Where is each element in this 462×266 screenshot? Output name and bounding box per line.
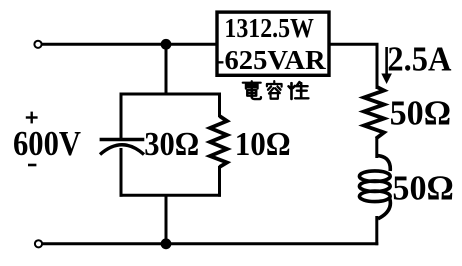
- bottom rail wire: [42, 242, 378, 245]
- svg-text:600V: 600V: [13, 124, 81, 163]
- 性: [289, 82, 309, 99]
- source polarity +: [26, 112, 38, 124]
- terminal (top-left, open circle): [34, 41, 41, 48]
- svg-text:30Ω: 30Ω: [144, 126, 199, 163]
- 電: [243, 81, 261, 99]
- svg-text:10Ω: 10Ω: [235, 126, 291, 163]
- parallel network bottom wire: [120, 194, 222, 197]
- node A (top junction dot): [161, 39, 172, 50]
- source polarity -: [28, 164, 36, 167]
- annotation box (power readings): [217, 12, 329, 75]
- svg-text:-625VAR: -625VAR: [215, 45, 326, 75]
- wire: inductor to bottom rail: [375, 216, 378, 245]
- wire: left branch above capacitor: [120, 93, 123, 139]
- wire: right branch above resistor: [218, 93, 221, 118]
- wire: annotation box to right corner, down to resistor: [329, 44, 377, 89]
- wire: top-left terminal to annotation box: [42, 43, 216, 46]
- svg-text:2.5A: 2.5A: [387, 39, 452, 78]
- wire: node A down to parallel network: [165, 44, 168, 95]
- resistor 10Ω (zigzag): [210, 116, 227, 167]
- wire: left branch below capacitor: [120, 148, 123, 197]
- svg-text:50Ω: 50Ω: [390, 94, 451, 133]
- svg-text:1312.5W: 1312.5W: [224, 13, 314, 43]
- label 電容性 (capacitive), drawn as strokes: [243, 81, 309, 99]
- inductor 50Ω (coil loops): [359, 156, 390, 219]
- current arrow (2.5A direction): [381, 47, 392, 84]
- node B (bottom junction dot): [161, 238, 172, 249]
- capacitor 30Ω (curved-plate): [100, 140, 145, 155]
- wire: resistor to inductor: [375, 137, 378, 158]
- svg-text:50Ω: 50Ω: [392, 169, 453, 208]
- resistor 50Ω (right branch, zigzag): [364, 87, 384, 139]
- terminal (bottom-left, open circle): [35, 240, 42, 247]
- wire: node B up to parallel network: [165, 194, 168, 244]
- parallel network top wire: [120, 93, 222, 96]
- wire: right branch below resistor: [218, 166, 221, 197]
- 容: [267, 81, 282, 98]
